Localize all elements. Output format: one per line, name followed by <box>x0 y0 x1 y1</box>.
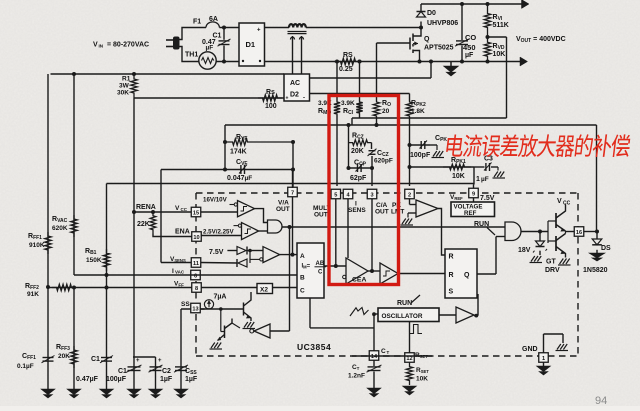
svg-text:R: R <box>449 272 454 279</box>
svg-text:RUN: RUN <box>474 221 489 228</box>
svg-text:IN: IN <box>99 44 104 49</box>
svg-text:RS: RS <box>343 52 353 59</box>
svg-text:6: 6 <box>194 273 197 279</box>
svg-text:RCI: RCI <box>343 108 354 116</box>
svg-text:VOUT = 400VDC: VOUT = 400VDC <box>516 36 566 44</box>
svg-text:15: 15 <box>193 210 199 216</box>
svg-text:V: V <box>175 205 180 212</box>
svg-text:RPK1: RPK1 <box>451 157 466 165</box>
svg-text:F1: F1 <box>193 19 201 26</box>
svg-text:13: 13 <box>192 306 198 312</box>
svg-text:1N5820: 1N5820 <box>583 267 608 274</box>
svg-text:1: 1 <box>542 356 545 362</box>
svg-text:620pF: 620pF <box>374 158 393 165</box>
svg-text:CC: CC <box>563 201 571 207</box>
svg-text:+: + <box>136 358 140 364</box>
svg-text:X2: X2 <box>260 287 268 294</box>
svg-text:62pF: 62pF <box>350 175 367 182</box>
svg-text:RVI: RVI <box>493 14 503 22</box>
svg-text:µF: µF <box>245 175 253 182</box>
svg-text:SS: SS <box>181 301 190 308</box>
svg-text:CO: CO <box>465 33 476 42</box>
svg-text:RVD: RVD <box>493 43 505 51</box>
svg-text:V: V <box>93 42 98 49</box>
svg-text:3.9K: 3.9K <box>341 100 355 107</box>
svg-text:OUT: OUT <box>276 206 290 213</box>
svg-text:1.2nF: 1.2nF <box>348 373 365 380</box>
svg-text:0.1µF: 0.1µF <box>17 363 34 370</box>
svg-text:20: 20 <box>382 108 390 115</box>
svg-text:10K: 10K <box>452 173 465 180</box>
svg-text:10: 10 <box>193 235 199 241</box>
svg-text:RPK2: RPK2 <box>411 100 426 108</box>
svg-text:7µA: 7µA <box>214 294 227 301</box>
svg-text:-: - <box>303 96 305 102</box>
svg-text:UC3854: UC3854 <box>297 342 331 352</box>
svg-text:ENA: ENA <box>175 229 190 236</box>
svg-text:CFF1: CFF1 <box>22 353 36 361</box>
svg-text:Q: Q <box>464 272 470 279</box>
svg-text:OSCILLATOR: OSCILLATOR <box>382 313 423 320</box>
svg-text:1: 1 <box>476 176 480 183</box>
svg-text:RVF: RVF <box>236 134 247 142</box>
svg-text:+: + <box>286 96 289 102</box>
svg-text:Rs: Rs <box>266 89 275 96</box>
svg-text:0.047: 0.047 <box>227 175 245 182</box>
svg-text:14: 14 <box>371 354 378 360</box>
svg-text:100µF: 100µF <box>106 376 127 383</box>
svg-text:CSS: CSS <box>185 368 197 376</box>
svg-text:6A: 6A <box>209 16 218 23</box>
svg-text:RB1: RB1 <box>85 248 97 256</box>
svg-text:C: C <box>300 288 305 295</box>
svg-text:RO: RO <box>382 100 391 108</box>
svg-text:OUT: OUT <box>375 209 389 216</box>
svg-text:7.5V: 7.5V <box>480 195 495 202</box>
svg-text:RCZ: RCZ <box>352 133 364 141</box>
svg-text:A: A <box>300 253 305 260</box>
svg-text:1.8K: 1.8K <box>411 108 425 115</box>
svg-text:GT: GT <box>546 259 556 266</box>
svg-text:AC: AC <box>290 80 300 87</box>
svg-text:2.5V/2.25V: 2.5V/2.25V <box>203 229 234 236</box>
svg-text:CCP: CCP <box>354 160 367 168</box>
svg-text:UHVP806: UHVP806 <box>427 20 458 27</box>
svg-text:5: 5 <box>334 192 337 198</box>
svg-text:RENA: RENA <box>136 204 156 211</box>
svg-text:22K: 22K <box>137 221 150 228</box>
svg-text:910K: 910K <box>29 242 45 249</box>
svg-text:C2: C2 <box>162 368 171 375</box>
svg-text:AB: AB <box>316 261 325 267</box>
svg-text:18V: 18V <box>518 247 531 254</box>
svg-text:R: R <box>449 254 454 261</box>
svg-text:T: T <box>387 350 390 355</box>
svg-text:VAC: VAC <box>175 270 185 275</box>
svg-text:7: 7 <box>291 190 294 196</box>
svg-text:I: I <box>172 268 174 275</box>
svg-text:0.47µF: 0.47µF <box>76 376 99 383</box>
svg-text:DRV: DRV <box>545 267 560 274</box>
svg-text:3: 3 <box>370 192 373 198</box>
svg-text:20K: 20K <box>58 353 70 360</box>
svg-text:20K: 20K <box>351 148 364 155</box>
svg-text:1µF: 1µF <box>160 376 173 383</box>
svg-text:SENS: SENS <box>348 207 366 214</box>
svg-text:91K: 91K <box>27 291 39 298</box>
svg-text:RUN: RUN <box>397 300 412 307</box>
svg-text:16V/10V: 16V/10V <box>203 197 228 204</box>
svg-text:174K: 174K <box>230 149 247 156</box>
svg-text:Q: Q <box>424 36 430 43</box>
svg-text:10K: 10K <box>493 51 506 58</box>
svg-text:µF: µF <box>465 52 474 59</box>
svg-text:D1: D1 <box>246 40 256 49</box>
svg-text:V: V <box>557 198 562 205</box>
svg-text:µF: µF <box>481 176 489 183</box>
svg-text:C: C <box>381 348 386 355</box>
svg-text:2: 2 <box>408 192 411 198</box>
svg-text:DS: DS <box>601 245 611 252</box>
svg-text:7.5V: 7.5V <box>209 249 224 256</box>
svg-text:CC: CC <box>181 207 188 212</box>
svg-text:RFF2: RFF2 <box>25 283 39 291</box>
svg-text:C1: C1 <box>91 356 100 363</box>
svg-text:µF: µF <box>206 45 214 52</box>
svg-text:RFF1: RFF1 <box>28 233 42 241</box>
svg-text:100: 100 <box>265 103 277 110</box>
svg-text:APT5025: APT5025 <box>424 45 454 52</box>
svg-text:11: 11 <box>193 261 199 267</box>
svg-text:GND: GND <box>522 346 538 353</box>
svg-text:C: C <box>318 270 323 276</box>
svg-text:3W: 3W <box>119 83 130 90</box>
svg-text:S: S <box>449 289 454 296</box>
svg-text:1µF: 1µF <box>185 376 198 383</box>
svg-text:+: + <box>158 358 162 364</box>
svg-text:B: B <box>300 275 305 282</box>
svg-text:0.25: 0.25 <box>339 66 353 73</box>
svg-text:8: 8 <box>195 286 198 292</box>
svg-text:16: 16 <box>576 230 582 236</box>
svg-text:150K: 150K <box>86 257 102 264</box>
svg-text:100pF: 100pF <box>410 152 431 159</box>
svg-text:CPK: CPK <box>435 135 447 143</box>
svg-text:10K: 10K <box>416 376 428 383</box>
svg-text:C1: C1 <box>118 368 127 375</box>
svg-text:CVF: CVF <box>236 159 247 167</box>
svg-text:RFF3: RFF3 <box>56 344 70 352</box>
svg-text:OUT: OUT <box>314 212 328 219</box>
svg-text:D0: D0 <box>427 10 436 17</box>
svg-text:30K: 30K <box>117 90 129 97</box>
svg-text:94: 94 <box>595 395 607 406</box>
svg-text:= 80-270VAC: = 80-270VAC <box>107 42 149 49</box>
svg-text:+: + <box>257 28 261 34</box>
svg-text:9: 9 <box>472 191 475 197</box>
svg-text:REF: REF <box>464 210 477 217</box>
svg-text:450: 450 <box>463 43 476 52</box>
svg-text:D2: D2 <box>290 92 299 99</box>
svg-text:CEA: CEA <box>352 277 366 284</box>
svg-text:RVAC: RVAC <box>52 216 68 224</box>
svg-text:620K: 620K <box>52 225 68 232</box>
svg-text:511K: 511K <box>493 22 509 29</box>
svg-text:TH1: TH1 <box>185 52 198 59</box>
svg-text:IM=: IM= <box>302 264 311 270</box>
